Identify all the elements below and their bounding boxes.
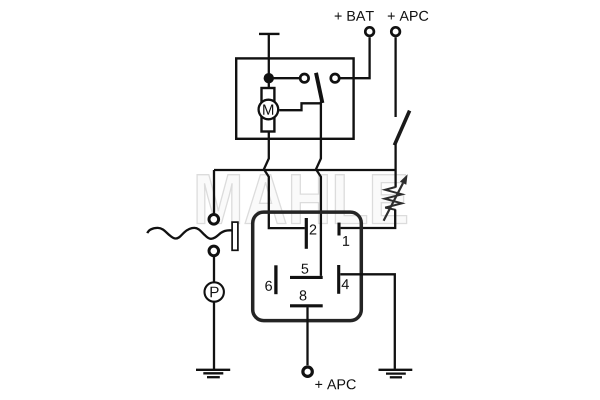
motor housing rectangle: [262, 88, 275, 132]
switch blade S1: [316, 73, 322, 103]
label pin 8: [300, 290, 307, 300]
wire motor bottom to relay pin 2 (hop over bus): [264, 132, 305, 229]
contact plate: [232, 222, 238, 250]
junction dot node A: [264, 73, 274, 83]
wire motor to switch foot: [279, 103, 321, 110]
wire bus to upper contact: [213, 170, 215, 213]
label pin 2: [310, 224, 317, 234]
upper contact circle: [209, 215, 219, 225]
switch blade S2: [394, 111, 409, 146]
relay pin 2: [305, 218, 308, 249]
contact circle a: [300, 74, 308, 82]
label pin 6: [265, 281, 272, 291]
bus wire (horizontal): [214, 169, 396, 171]
relay pin 6: [274, 265, 277, 294]
relay pin 4: [337, 265, 340, 294]
label +BAT: [335, 11, 374, 21]
wire switch S2 to rheostat: [394, 144, 396, 187]
relay K1 body: [253, 212, 362, 321]
terminal T-bar (top antenna stub): [259, 33, 280, 35]
label +APC top: [388, 11, 429, 21]
wire switch foot to relay pin 5 (hop over bus): [316, 102, 321, 276]
wire pin 8 to +APC bottom: [306, 307, 308, 365]
wire rheostat to relay pin 1: [341, 210, 396, 229]
terminal +BAT: [365, 27, 374, 36]
wire pin 4 to ground (right): [340, 274, 395, 369]
ground (right): [379, 370, 413, 378]
contact circle b: [331, 74, 339, 82]
ground (left): [196, 370, 230, 377]
pressure sensor P: [205, 282, 224, 301]
wire lower contact to P: [213, 257, 215, 283]
label pin 4: [342, 279, 349, 289]
label pin 5: [302, 264, 309, 274]
watermark MAHLE: [197, 175, 407, 224]
label pin 1: [343, 236, 349, 246]
relay pin 5: [290, 276, 323, 279]
wire +APC down to switch S2: [394, 37, 396, 117]
rheostat R1 zigzag: [385, 187, 402, 210]
relay pin 8: [290, 304, 323, 307]
rheostat arrow: [384, 183, 403, 221]
label +APC bottom: [315, 379, 356, 389]
flexible lead (wavy wire): [147, 228, 231, 239]
relay pin 1: [337, 223, 340, 236]
terminal +APC (top): [391, 27, 400, 36]
wire contact b to +BAT corner: [340, 37, 369, 78]
control unit box U1: [236, 58, 353, 138]
terminal +APC (bottom): [303, 367, 312, 376]
wire P to ground: [213, 301, 215, 370]
wire T-bar to motor unit: [268, 34, 270, 89]
lower contact circle: [209, 246, 219, 256]
wire dot to contact a: [269, 77, 300, 79]
motor M: [259, 100, 279, 120]
